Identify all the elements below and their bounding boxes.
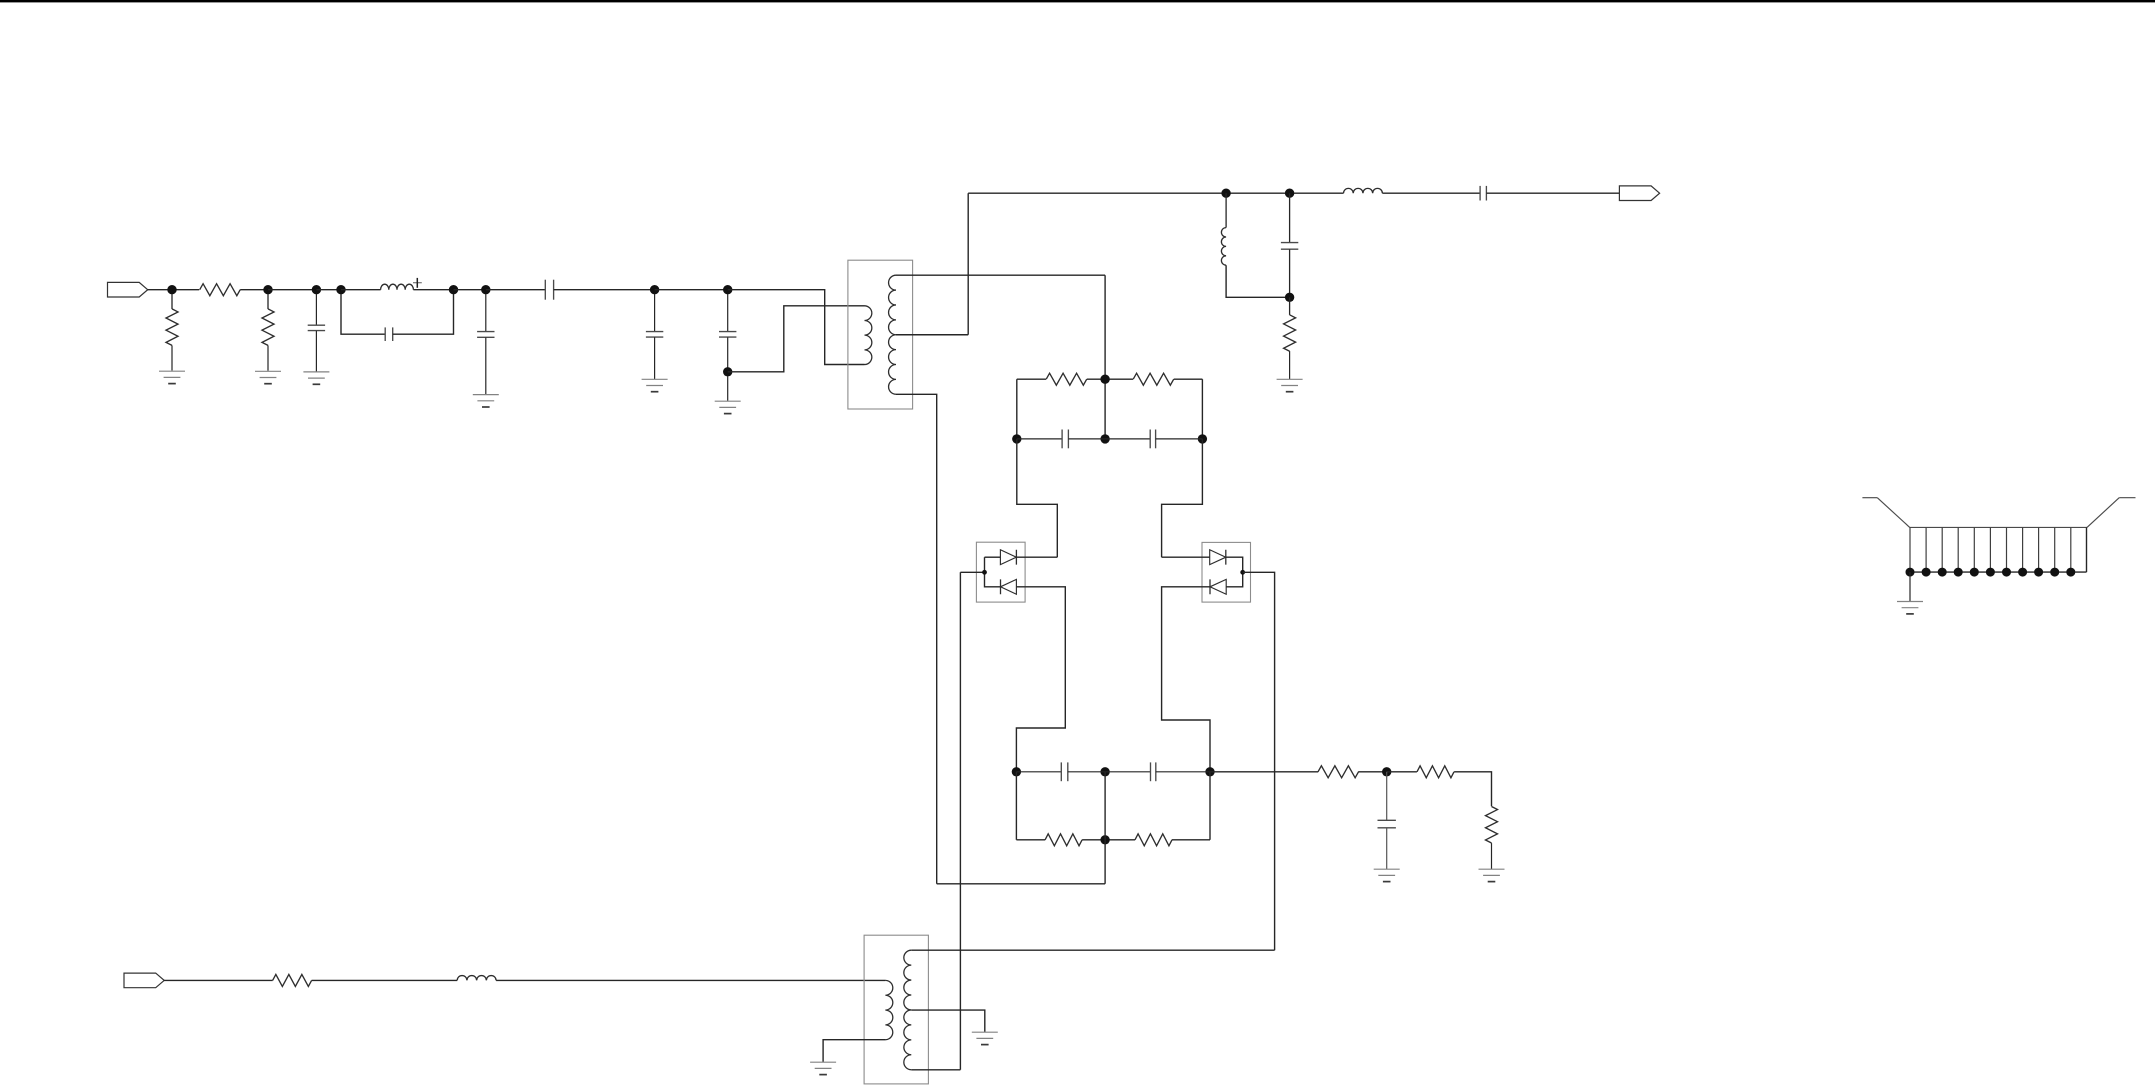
transformer T1 secondary winding [889,275,896,394]
ground for T2 primary [810,1062,836,1074]
wire node I to T1 primary top [728,306,865,372]
ground for package [1897,602,1923,614]
node R junction U2 [1240,570,1245,575]
resistor R3 shunt at node B [262,294,274,371]
diode pair U1 box [976,542,1025,602]
wire RF output line [968,192,1343,194]
wire bridge2 right drop [1209,772,1211,840]
inductor L4 series [457,976,496,981]
wire main line to T1 primary bottom [728,290,865,365]
wire node U to R9 [1210,771,1318,773]
ground for R11 [1479,869,1505,881]
wire T2 center tap [911,1010,985,1032]
wire T1 secondary bottom down [896,394,937,884]
resistor R10 series [1387,766,1454,778]
resistor R6 bridge top right [1105,373,1202,385]
node I junction below C6 [723,367,732,376]
transformer T2 secondary winding [904,950,911,1070]
wire L3 to C8 [1382,192,1480,194]
wire U1 common node [960,557,1000,587]
capacitor C8 series [1480,186,1486,201]
node T junction [1100,767,1109,776]
node S junction [1012,767,1021,776]
node P junction [1198,434,1207,443]
capacitor C9 bridge [1017,430,1105,449]
ground for T2 center tap [972,1032,998,1044]
wire C8 to J2 [1486,192,1619,194]
wire U2 common node [1226,557,1243,587]
wire R12 to L4 [312,979,458,981]
ground for node I [715,401,741,413]
wire L1 to node E [413,289,453,291]
wire bridge2 left drop [1015,772,1017,840]
node F junction [481,285,490,294]
node M junction [1100,375,1109,384]
node V junction [1100,835,1109,844]
wire T2 primary bottom to ground [823,1040,885,1062]
wire C4 to node G [554,289,655,291]
inductor L1 series [381,284,414,290]
wire D2 anode out [1016,587,1065,772]
connector J1 RF input [108,282,148,297]
node B junction [263,285,272,294]
node H junction [723,285,732,294]
wire node N to D1 cathode [1017,439,1058,557]
wire J1 to node A [148,289,200,291]
ground for R3 [255,371,281,383]
resistor R11 to ground [1486,807,1498,870]
resistor R12 series [273,974,312,986]
wire node C to node D [316,289,341,291]
diode D2 (U1 bottom) [1001,579,1017,594]
wire T2 secondary top [911,949,1274,951]
resistor R5 bridge top left [1017,373,1105,385]
node U junction [1205,767,1214,776]
node O junction [1100,434,1109,443]
transformer T2 box [864,935,928,1084]
node N junction [1012,434,1021,443]
package outline right lead [2087,498,2136,528]
wire U2 node to T2 secondary top [1243,572,1275,950]
diode D4 (U2 bottom) [1210,579,1226,594]
capacitor C4 series [545,280,553,300]
wire node F to C4 [486,289,546,291]
resistor R7 bridge bottom left [1016,834,1105,846]
resistor R4 to ground [1284,297,1296,379]
wire node G to node H [655,289,728,291]
wire J3 to R12 [164,979,273,981]
wire into D3 anode [1162,556,1210,558]
resistor R1 shunt at node A [166,294,178,371]
wire bridge2 center drop [937,772,1105,884]
wire T2 secondary bottom [911,1069,960,1071]
node L junction [1285,293,1294,302]
diode D3 (U2 top) [1210,550,1226,565]
wire R9 to node W [1358,771,1387,773]
inductor L3 series [1344,188,1383,193]
wire U1 node to T2 secondary bottom [959,572,961,1070]
package outline left lead [1862,498,1909,528]
wire R10 corner down [1454,772,1491,806]
transformer T1 box [848,260,913,409]
diode D1 (U1 top) [1000,550,1016,565]
wire bridge feed vertical [1104,275,1106,439]
node K junction [1285,189,1294,198]
ground for C3 [473,395,499,407]
node C junction [312,285,321,294]
node E junction [449,285,458,294]
capacitor C10 bridge [1105,430,1202,449]
capacitor C13 shunt [1378,772,1396,869]
ground for R1 [159,371,185,383]
ground for R4 [1277,379,1303,391]
wire package bus to ground [1909,572,1911,601]
diode pair U2 box [1202,542,1251,602]
wire bridge right drop [1201,379,1203,439]
capacitor C11 bridge [1016,762,1105,781]
top border bar [0,0,2155,2]
resistor R8 bridge bottom right [1105,834,1210,846]
resistor R9 series [1318,766,1359,778]
wire D1 cathode out [1016,556,1057,558]
package pin bus [1910,527,2087,572]
wire L4 to T2 primary [496,979,885,981]
capacitor C12 bridge [1105,762,1210,781]
polarity mark + for L1 [413,278,422,288]
node A junction [167,285,176,294]
package outline body rail [1910,526,2087,528]
wire node E to node F [454,289,486,291]
transformer T2 primary winding [885,980,892,1039]
wire bridge left drop [1016,379,1018,439]
ground for C5 [642,379,668,391]
wire node D to L1 [341,289,381,291]
connector J2 RF output [1619,186,1659,201]
node W junction [1382,767,1391,776]
wire node I to ground [727,377,729,401]
wire T1 center tap riser [967,193,969,335]
package pin junction dots [1906,568,2076,577]
node Q junction U1 [982,570,987,575]
capacitor C6 shunt at node H [719,294,736,368]
node G junction [650,285,659,294]
transformer T1 primary winding [865,306,872,365]
capacitor C7 shunt [1281,193,1298,297]
wire node P to D3 anode [1162,439,1203,557]
wire T1 secondary top to bridge [896,274,1105,276]
wire T1 secondary center tap [896,334,968,336]
package ground pins [1910,527,2071,572]
capacitor C3 shunt at node F [477,294,494,394]
wire R2 to node B [240,289,268,291]
wire D4 cathode out [1162,587,1210,772]
wire node B to node C [268,289,316,291]
ground for C13 [1374,869,1400,881]
inductor L2 shunt [1221,193,1289,297]
capacitor C2 parallel with L1 [341,294,454,341]
capacitor C1 shunt at node C [308,294,325,372]
connector J3 LO input [124,973,164,988]
node J junction [1221,189,1230,198]
ground for C1 [303,372,329,384]
resistor R2 series [200,284,241,296]
capacitor C5 shunt at node G [646,294,663,379]
node D junction [336,285,345,294]
